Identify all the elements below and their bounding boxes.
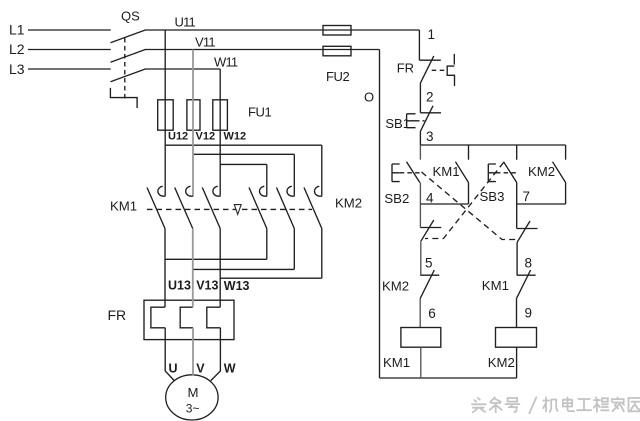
svg-text:U13: U13 bbox=[168, 279, 191, 293]
svg-text:SB1: SB1 bbox=[385, 116, 410, 131]
svg-text:KM2: KM2 bbox=[528, 164, 555, 179]
svg-text:L1: L1 bbox=[9, 22, 25, 38]
svg-text:9: 9 bbox=[525, 306, 533, 321]
svg-text:KM1: KM1 bbox=[433, 164, 460, 179]
svg-text:1: 1 bbox=[428, 27, 436, 42]
svg-text:KM2: KM2 bbox=[488, 355, 515, 370]
svg-text:KM1: KM1 bbox=[482, 278, 509, 293]
svg-text:5: 5 bbox=[425, 255, 433, 270]
svg-text:6: 6 bbox=[428, 306, 436, 321]
svg-text:W13: W13 bbox=[224, 279, 250, 293]
svg-text:SB2: SB2 bbox=[384, 191, 409, 206]
svg-text:V: V bbox=[196, 362, 205, 376]
svg-text:L3: L3 bbox=[9, 61, 25, 77]
svg-text:V12: V12 bbox=[196, 131, 216, 143]
svg-text:V13: V13 bbox=[196, 279, 218, 293]
svg-text:KM1: KM1 bbox=[383, 355, 410, 370]
svg-text:W12: W12 bbox=[224, 131, 247, 143]
svg-text:FU2: FU2 bbox=[326, 69, 350, 84]
svg-text:W11: W11 bbox=[214, 54, 238, 69]
svg-text:8: 8 bbox=[525, 255, 533, 270]
svg-text:7: 7 bbox=[523, 189, 531, 204]
svg-text:KM1: KM1 bbox=[110, 199, 137, 214]
svg-text:4: 4 bbox=[426, 190, 434, 205]
svg-text:M: M bbox=[188, 385, 199, 400]
svg-text:U: U bbox=[169, 362, 178, 376]
svg-text:V11: V11 bbox=[195, 35, 215, 50]
svg-text:2: 2 bbox=[426, 89, 434, 104]
svg-text:U11: U11 bbox=[175, 15, 196, 30]
svg-text:KM2: KM2 bbox=[382, 279, 409, 294]
svg-text:O: O bbox=[364, 90, 374, 105]
svg-text:KM2: KM2 bbox=[335, 196, 362, 211]
svg-text:L2: L2 bbox=[9, 41, 25, 57]
svg-text:FR: FR bbox=[397, 61, 414, 76]
svg-text:FR: FR bbox=[108, 307, 127, 323]
svg-text:U12: U12 bbox=[168, 131, 188, 143]
svg-text:3~: 3~ bbox=[186, 401, 200, 415]
svg-text:SB3: SB3 bbox=[480, 189, 505, 204]
svg-text:W: W bbox=[224, 362, 236, 376]
svg-text:3: 3 bbox=[426, 129, 434, 144]
svg-text:FU1: FU1 bbox=[248, 105, 272, 120]
svg-text:QS: QS bbox=[121, 8, 140, 23]
